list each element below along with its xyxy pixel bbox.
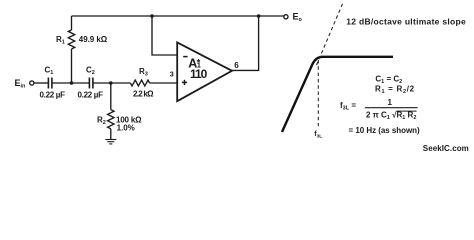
- graph: dashed asymptote (12 dB/octave): [317, 4, 343, 65]
- ground: [105, 140, 116, 144]
- svg-text:2 π C1 √R1 R2: 2 π C1 √R1 R2: [366, 111, 416, 122]
- junction: C1/R1 node: [70, 81, 74, 85]
- capacitor C2: [89, 78, 93, 89]
- resistor R2: [108, 110, 114, 129]
- svg-text:110: 110: [190, 67, 208, 81]
- wire: input lead from E_in terminal to C1: [34, 82, 48, 84]
- svg-text:0.22 µF: 0.22 µF: [78, 90, 104, 99]
- svg-text:49.9 kΩ: 49.9 kΩ: [79, 35, 108, 44]
- junction: C2/R2 node: [109, 81, 113, 85]
- wire: C2 to R3 through R2 tap node: [93, 82, 130, 84]
- svg-text:C1 = C2: C1 = C2: [375, 75, 402, 86]
- op-amp inverting sign: [183, 56, 187, 58]
- wire: R1 upper lead to feedback rail: [71, 16, 73, 30]
- wire: R2 lower lead to ground: [110, 129, 112, 140]
- junction: output node: [257, 14, 261, 18]
- junction: feedback tap: [150, 14, 154, 18]
- feedback rail (top wire): [72, 15, 284, 17]
- input terminal E_in: [30, 81, 34, 85]
- resistor R1: [68, 30, 74, 49]
- wire: op-amp output to rail: [232, 16, 259, 70]
- wire: R3 to op-amp noninverting input: [150, 82, 178, 84]
- svg-text:1: 1: [388, 98, 393, 107]
- wire: feedback drop to inverting input: [152, 16, 177, 55]
- formula fraction bar: [365, 107, 418, 109]
- svg-text:2.2 kΩ: 2.2 kΩ: [133, 89, 154, 98]
- svg-text:1.0%: 1.0%: [117, 123, 135, 132]
- graph: response curve: [282, 57, 393, 132]
- formula sqrt overline: [397, 110, 417, 112]
- svg-text:SeekIC.com: SeekIC.com: [423, 144, 469, 153]
- svg-text:3: 3: [170, 70, 174, 79]
- svg-text:0.22 µF: 0.22 µF: [40, 90, 66, 99]
- resistor R3: [130, 80, 149, 86]
- svg-text:f3L =: f3L =: [340, 101, 356, 112]
- wire: R2 upper lead: [110, 83, 112, 110]
- wire: R1 lower lead: [71, 49, 73, 83]
- capacitor C1: [48, 78, 52, 89]
- output terminal E_o: [284, 15, 288, 19]
- svg-text:= 10 Hz (as shown): = 10 Hz (as shown): [349, 126, 421, 135]
- op-amp U1: [177, 42, 232, 101]
- op-amp noninverting sign: [182, 80, 187, 85]
- svg-text:6: 6: [234, 61, 239, 70]
- wire: C1 to C2 through R1 tap node: [52, 82, 89, 84]
- svg-text:R1 = R2/2: R1 = R2/2: [375, 85, 415, 96]
- svg-text:12 dB/octave ultimate slope: 12 dB/octave ultimate slope: [346, 17, 466, 27]
- graph: dashed corner frequency marker: [317, 60, 319, 126]
